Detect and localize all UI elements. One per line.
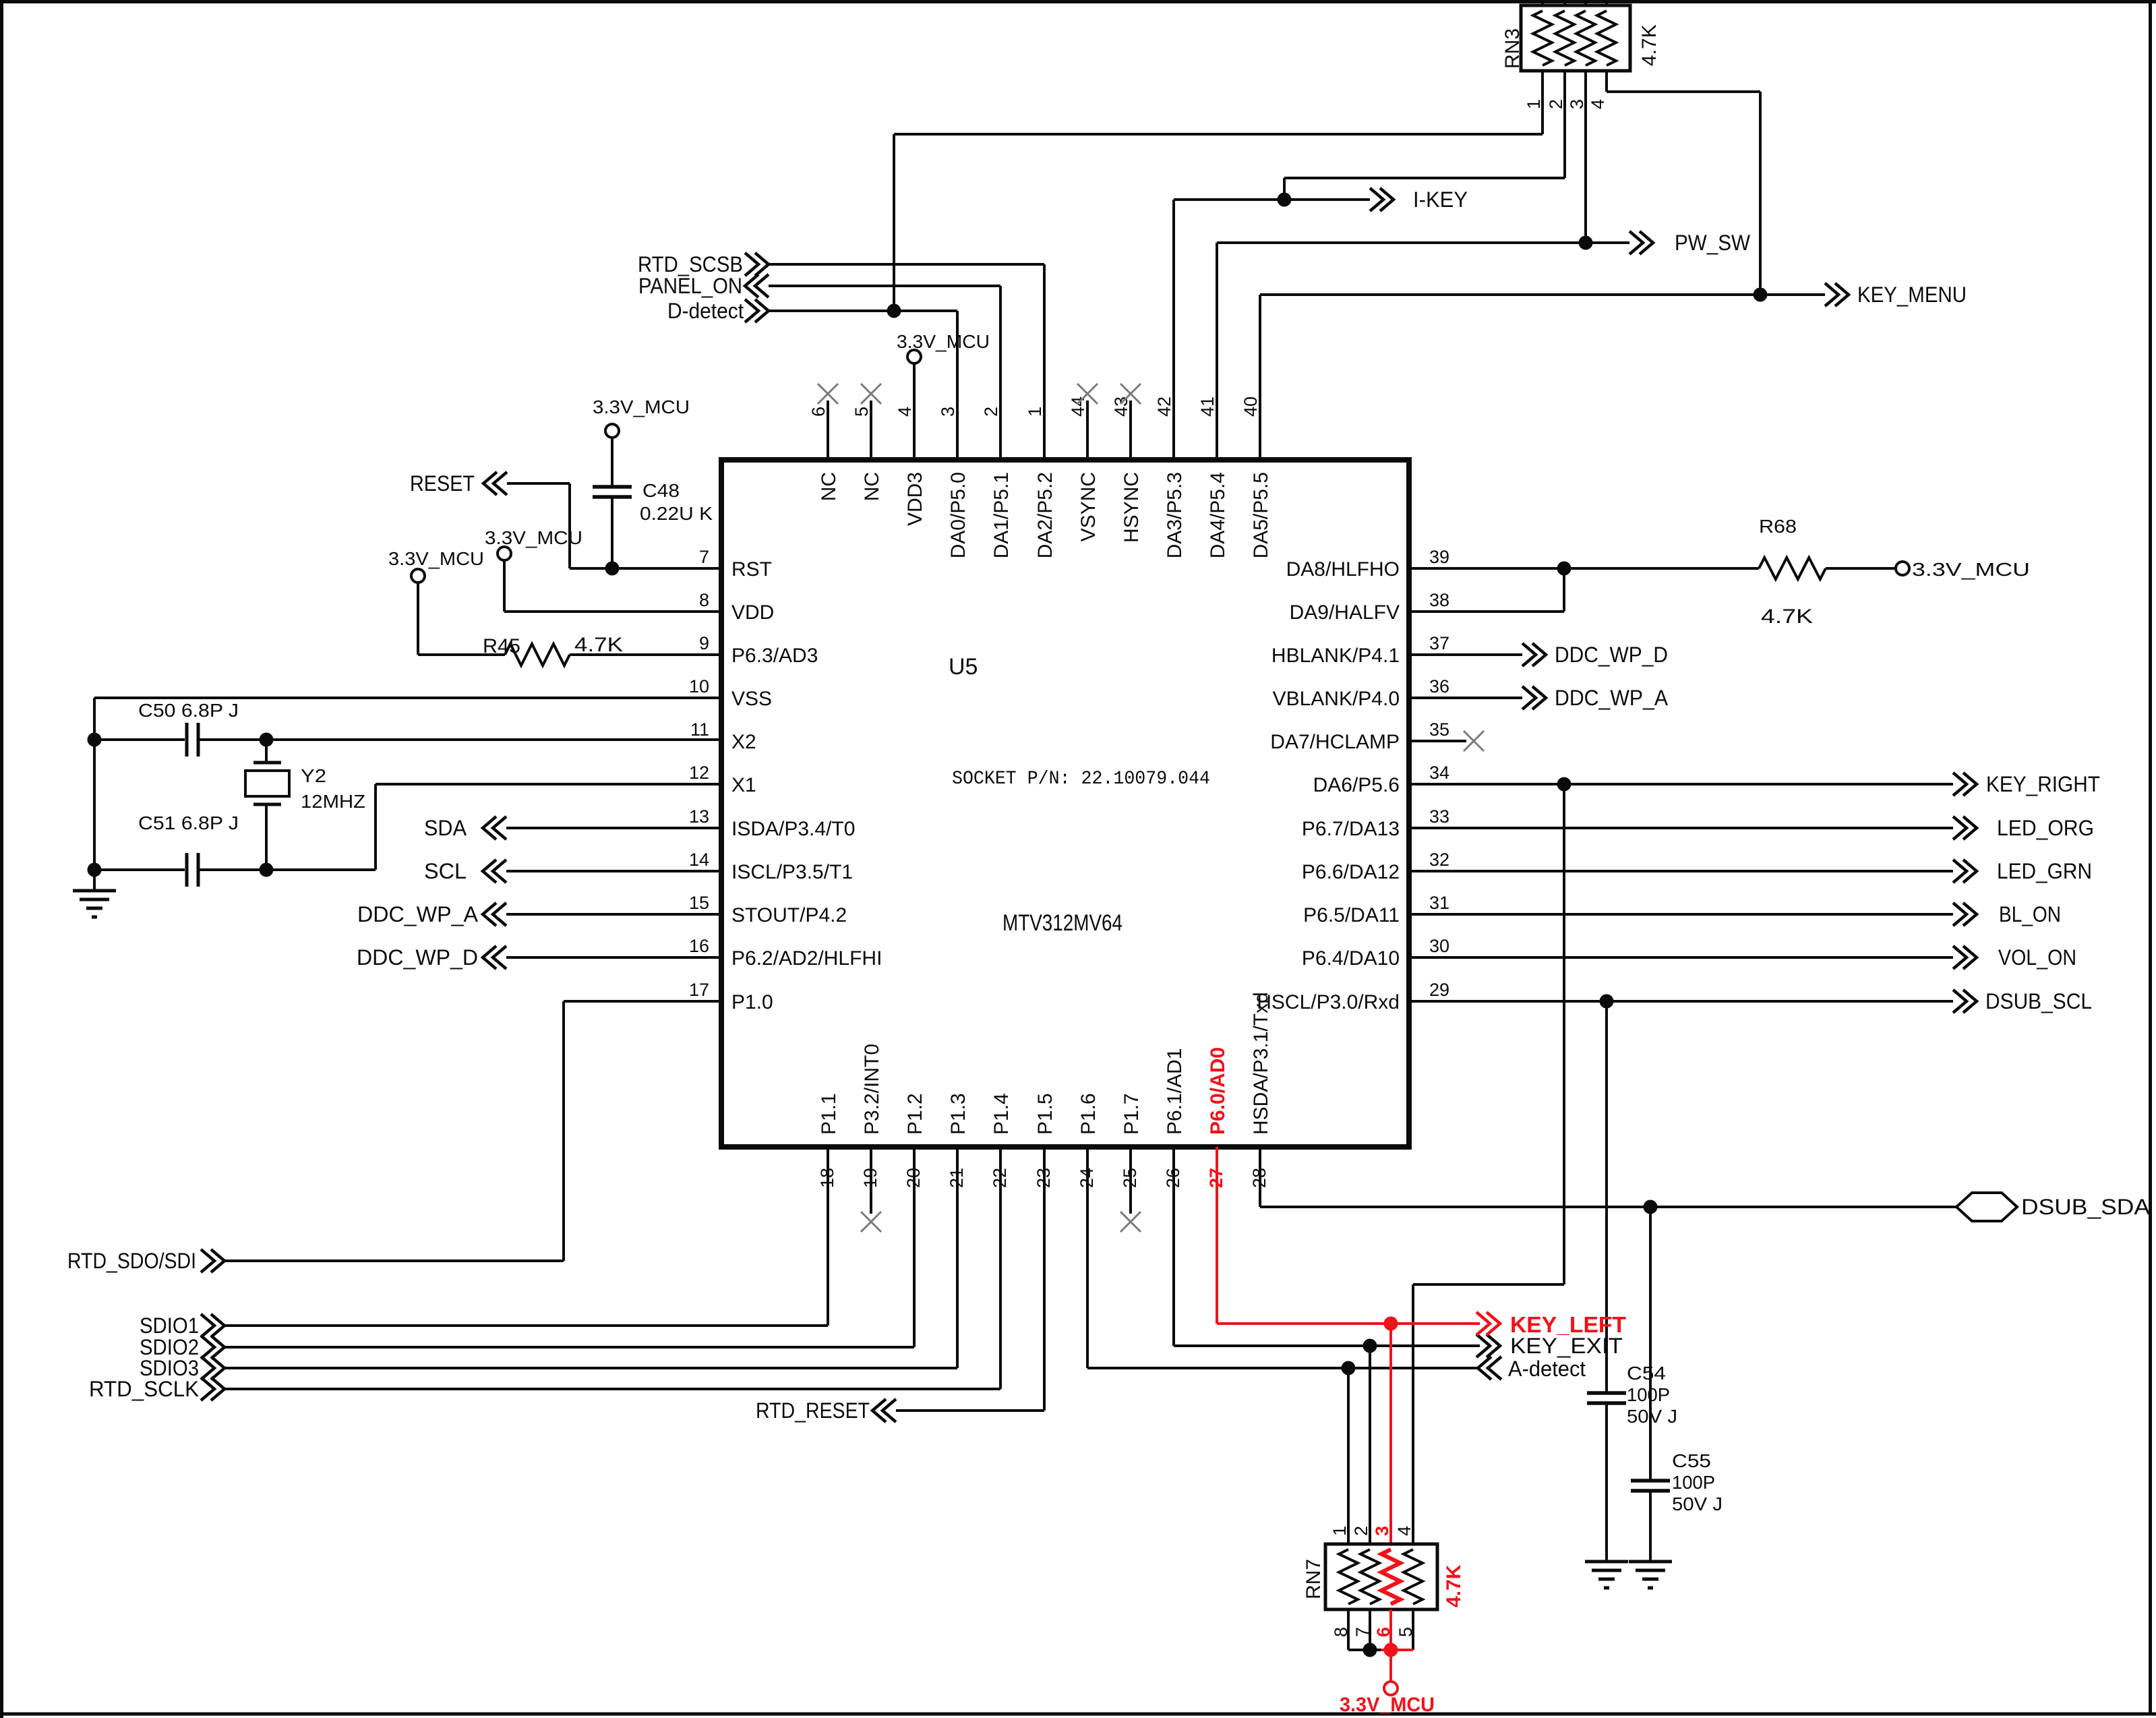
U5 pin 12 (X1) left number + name (689, 763, 756, 796)
svg-text:KEY_RIGHT: KEY_RIGHT (1986, 772, 2100, 796)
svg-text:7: 7 (699, 547, 709, 567)
R45 value label 4.7K (574, 634, 623, 656)
svg-text:HBLANK/P4.1: HBLANK/P4.1 (1271, 645, 1400, 667)
svg-text:2: 2 (1351, 1526, 1371, 1536)
RN7 pin number 2 (1351, 1526, 1371, 1536)
wire I-KEY net: pin 42 up and right to chevron (1174, 188, 1394, 460)
svg-text:RTD_SCLK: RTD_SCLK (89, 1377, 199, 1401)
svg-text:Y2: Y2 (301, 765, 326, 786)
svg-text:KEY_EXIT: KEY_EXIT (1510, 1334, 1623, 1358)
svg-text:30: 30 (1429, 936, 1449, 956)
capacitor C54 (1587, 1393, 1626, 1403)
wire C51 right up to pin 12 X1 (198, 784, 721, 870)
svg-text:43: 43 (1111, 396, 1131, 417)
junction RN7 pin 2 on KEY_EXIT line (1363, 1339, 1377, 1353)
svg-text:P1.6: P1.6 (1077, 1093, 1100, 1135)
svg-text:5: 5 (1396, 1627, 1416, 1637)
net label SCL (424, 859, 467, 883)
wire KEY_RIGHT junction down to RN7 pin 4 (1413, 784, 1564, 1544)
U5 pin 2 (DA1/P5.1) top stub + number + name (981, 286, 1013, 558)
wire RN7 bottom tie (red part) (1381, 1649, 1413, 1651)
crystal Y2 (245, 740, 289, 870)
U5 pin 23 (P1.5) bottom stub + number + name (1034, 1093, 1056, 1411)
U5 pin 24 (P1.6) bottom stub + number + name (1077, 1093, 1100, 1368)
svg-text:3: 3 (938, 407, 958, 417)
C54 value label 50V J (1627, 1406, 1677, 1427)
svg-text:P1.4: P1.4 (990, 1093, 1013, 1135)
svg-text:ISDA/P3.4/T0: ISDA/P3.4/T0 (731, 818, 855, 840)
power label 3.3V_MCU (R45) (388, 548, 484, 569)
wire KEY_LEFT net (red): pin 27 to chevron (1217, 1312, 1500, 1335)
U5 pin 1 (DA2/P5.2) top stub + number + name (1025, 264, 1056, 558)
svg-text:4.7K: 4.7K (1638, 24, 1660, 66)
svg-text:R45: R45 (483, 635, 520, 657)
svg-text:LED_ORG: LED_ORG (1997, 816, 2094, 840)
RN7 bottom stub pin 5 (1412, 1609, 1414, 1650)
power label 3.3V_MCU (C48) (593, 396, 690, 417)
svg-text:DDC_WP_D: DDC_WP_D (1555, 643, 1668, 667)
wire C51 left lead (94, 868, 185, 871)
wire KEY_MENU net: pin 40 up and right to chevron (1260, 283, 1849, 460)
svg-text:18: 18 (817, 1168, 837, 1188)
U5 pin 18 (P1.1) bottom stub + number + name (817, 1093, 840, 1326)
svg-text:SDA: SDA (424, 816, 467, 840)
capacitor C51 (187, 853, 198, 887)
wire R68 to 3.3V_MCU (1826, 567, 1896, 570)
wire RN3 pin 3 stub down (1584, 71, 1587, 243)
net label D-detect (667, 299, 744, 323)
svg-text:4: 4 (1394, 1526, 1414, 1536)
U5 pin 11 (X2) left number + name (690, 719, 756, 753)
U5 pin 28 (HSDA/P3.1/Txd) bottom stub + number + name (1249, 992, 1272, 1207)
wire VOL_ON net (pin 30) to chevron (1409, 946, 1977, 969)
svg-text:ISCL/P3.5/T1: ISCL/P3.5/T1 (731, 861, 853, 883)
svg-text:P6.3/AD3: P6.3/AD3 (731, 645, 818, 667)
svg-text:DA0/P5.0: DA0/P5.0 (947, 472, 969, 558)
svg-text:40: 40 (1240, 396, 1261, 417)
wire pin 28 to DSUB_SDA (1260, 1147, 1956, 1207)
U5 pin 21 (P1.3) bottom stub + number + name (947, 1093, 969, 1368)
svg-text:8: 8 (699, 590, 709, 610)
net label RTD_RESET (756, 1398, 870, 1423)
power label 3.3V_MCU (RN7, red) (1340, 1694, 1435, 1716)
wire C48 bottom to RST junction (611, 497, 613, 568)
U5 pin 41 (DA4/P5.4) top stub + number + name (1197, 243, 1229, 558)
RN7 element 1 zigzag (1339, 1549, 1358, 1604)
wire C54 to ground (1605, 1403, 1608, 1562)
svg-text:RN3: RN3 (1501, 28, 1524, 69)
wire RESET net: chevron to pin 7 (483, 472, 721, 568)
IC U5 part number label (1002, 910, 1122, 936)
RN7 element 4 zigzag (1404, 1549, 1423, 1604)
U5 pin 38 (DA9/HALFV) right number + name (1290, 590, 1449, 624)
svg-text:4: 4 (1588, 99, 1608, 109)
svg-text:1: 1 (1329, 1526, 1350, 1536)
svg-text:1: 1 (1524, 99, 1544, 109)
svg-text:DDC_WP_D: DDC_WP_D (357, 945, 478, 970)
svg-text:C50 6.8P J: C50 6.8P J (138, 700, 239, 721)
junction RN7 pin 3 on KEY_LEFT line (red) (1384, 1317, 1398, 1331)
wire LED_GRN net (pin 32) to chevron (1409, 860, 1977, 883)
RN3 top pin stubs to page edge (1543, 0, 1607, 5)
svg-text:P1.3: P1.3 (947, 1093, 969, 1135)
svg-text:SCL: SCL (424, 859, 467, 883)
svg-text:DA1/P5.1: DA1/P5.1 (990, 472, 1013, 558)
U5 pin 39 (DA8/HLFHO) right number + name (1286, 547, 1449, 581)
junction on KEY_RIGHT line (1557, 777, 1571, 792)
RN7 bottom stub pin 6 (red) (1389, 1609, 1392, 1650)
svg-text:14: 14 (689, 850, 709, 870)
wire RTD_SCLK net: chevron to pin 22 (201, 1378, 1000, 1400)
wire RN3 pin 4 over and down to KEY_MENU junction (1607, 71, 1760, 295)
svg-text:HSCL/P3.0/Rxd: HSCL/P3.0/Rxd (1257, 991, 1400, 1013)
RN7 pin number 1 (1329, 1526, 1350, 1536)
net label SDA (424, 816, 467, 840)
svg-text:P3.2/INT0: P3.2/INT0 (861, 1044, 883, 1135)
svg-text:4.7K: 4.7K (1761, 605, 1813, 628)
U5 pin 44 (VSYNC) top stub + number + name (1068, 396, 1100, 541)
wire red tie down to power (1389, 1650, 1392, 1682)
junction C51 left (88, 863, 102, 877)
wire RN3 pin 2 down to I-KEY junction (1284, 71, 1565, 200)
svg-text:RST: RST (731, 558, 772, 581)
RN3 element 3 zigzag (1576, 11, 1595, 65)
net label KEY_RIGHT (1986, 772, 2100, 796)
svg-text:DA4/P5.4: DA4/P5.4 (1207, 472, 1229, 558)
RN7 element 3 zigzag (red) (1381, 1549, 1400, 1604)
junction crystal bottom on C51 line (260, 863, 274, 877)
svg-text:SOCKET P/N: 22.10079.044: SOCKET P/N: 22.10079.044 (952, 769, 1210, 790)
C50 label C50 6.8P J (138, 700, 239, 721)
net label KEY_LEFT (red) (1510, 1312, 1626, 1337)
svg-text:DA5/P5.5: DA5/P5.5 (1250, 472, 1272, 558)
svg-text:LED_GRN: LED_GRN (1997, 859, 2092, 883)
wire DSUB_SCL junction down to C54 (1605, 1001, 1608, 1393)
svg-text:35: 35 (1429, 719, 1449, 740)
U5 pin 33 (P6.7/DA13) right number + name (1302, 806, 1449, 840)
net label RTD_SCLK (89, 1377, 199, 1401)
U5 pin 17 (P1.0) left number + name (689, 980, 773, 1013)
U5 pin 27 (P6.0/AD0) bottom stub + number + name (1206, 1047, 1229, 1324)
svg-text:VSYNC: VSYNC (1077, 472, 1100, 541)
svg-text:8: 8 (1331, 1627, 1351, 1637)
svg-text:VBLANK/P4.0: VBLANK/P4.0 (1273, 688, 1400, 710)
U5 pin 19 (P3.2/INT0) bottom stub + number + name (860, 1044, 883, 1214)
U5 pin 3 (DA0/P5.0) top stub + number + name (938, 311, 969, 558)
no-connect X on pin 43 (1120, 384, 1141, 404)
RN7 pin number 4 (1394, 1526, 1414, 1536)
RN7 refdes label (1302, 1559, 1325, 1599)
capacitor C50 (187, 723, 198, 757)
svg-text:4.7K: 4.7K (574, 634, 623, 656)
wire pin 38 up to pin 39 line (1409, 568, 1564, 612)
svg-text:44: 44 (1068, 396, 1088, 417)
junction RN3 pin 3 on PW_SW line (1579, 236, 1593, 250)
power symbol 3.3V_MCU at pin 8 (498, 547, 511, 560)
U5 pin 6 (NC) top stub + number + name (808, 401, 840, 501)
net label PANEL_ON (638, 274, 742, 298)
no-connect X on pin 25 (1120, 1212, 1141, 1232)
svg-text:MTV312MV64: MTV312MV64 (1002, 910, 1122, 936)
wire A-detect net: pin 24 to chevron (1087, 1357, 1501, 1380)
wire DDC_WP_A net: chevron to pin 15 (483, 903, 721, 926)
wire RTD_RESET net: chevron to pin 23 (872, 1399, 1044, 1422)
svg-text:24: 24 (1077, 1168, 1097, 1188)
svg-text:4: 4 (895, 407, 915, 417)
RN7 pin number 8 (1331, 1627, 1351, 1637)
U5 pin 32 (P6.6/DA12) right number + name (1302, 850, 1449, 883)
svg-text:19: 19 (860, 1168, 880, 1188)
junction C48 on RST line (605, 562, 620, 576)
svg-text:31: 31 (1429, 893, 1449, 913)
svg-text:RTD_SDO/SDI: RTD_SDO/SDI (67, 1249, 196, 1273)
U5 pin 15 (STOUT/P4.2) left number + name (689, 893, 847, 926)
svg-text:DA2/P5.2: DA2/P5.2 (1034, 472, 1056, 558)
U5 pin 5 (NC) top stub + number + name (851, 401, 883, 501)
U5 pin 7 (RST) left number + name (699, 547, 772, 581)
svg-text:7: 7 (1352, 1627, 1373, 1637)
svg-text:0.22U K: 0.22U K (640, 503, 713, 524)
RN3 refdes label (1501, 28, 1524, 69)
svg-text:2: 2 (981, 407, 1001, 417)
svg-text:100P: 100P (1672, 1472, 1715, 1493)
svg-text:20: 20 (903, 1168, 924, 1188)
svg-text:21: 21 (947, 1168, 967, 1188)
C51 label C51 6.8P J (138, 812, 239, 833)
svg-text:DA9/HALFV: DA9/HALFV (1290, 601, 1400, 624)
no-connect X on pin 5 (861, 384, 881, 404)
no-connect X on pin 44 (1077, 384, 1098, 404)
svg-text:33: 33 (1429, 806, 1449, 827)
svg-text:9: 9 (699, 633, 709, 653)
svg-text:P1.5: P1.5 (1034, 1093, 1056, 1135)
RN3 element 1 zigzag (1533, 11, 1552, 65)
net label BL_ON (1999, 902, 2061, 926)
U5 pin 40 (DA5/P5.5) top stub + number + name (1240, 295, 1272, 558)
wire PW_SW net: pin 41 up and right to chevron (1217, 231, 1653, 460)
svg-text:VDD: VDD (731, 601, 774, 624)
net label VOL_ON (1998, 945, 2076, 970)
svg-text:13: 13 (689, 806, 709, 827)
wire DSUB_SDA junction down to C55 (1649, 1207, 1652, 1481)
svg-text:PANEL_ON: PANEL_ON (638, 274, 742, 298)
RN3 pin number 1 (1524, 99, 1544, 109)
svg-text:NC: NC (861, 472, 883, 501)
C54 value label 100P (1627, 1384, 1670, 1405)
svg-text:A-detect: A-detect (1508, 1357, 1586, 1381)
RN7 bottom stub pin 8 (1347, 1609, 1350, 1650)
junction on I-KEY line (1278, 193, 1292, 207)
svg-text:STOUT/P4.2: STOUT/P4.2 (731, 904, 847, 926)
svg-text:3.3V_MCU: 3.3V_MCU (485, 527, 582, 548)
wire DDC_WP_D net: chevron to pin 16 (483, 946, 721, 969)
svg-text:29: 29 (1429, 980, 1449, 1000)
svg-text:I-KEY: I-KEY (1413, 187, 1468, 212)
svg-text:3.3V_MCU: 3.3V_MCU (1340, 1694, 1435, 1716)
svg-text:SDIO1: SDIO1 (140, 1313, 199, 1338)
svg-text:HSYNC: HSYNC (1120, 472, 1143, 543)
svg-text:6: 6 (1373, 1627, 1394, 1637)
svg-text:P6.4/DA10: P6.4/DA10 (1302, 947, 1400, 970)
svg-text:P1.1: P1.1 (818, 1093, 840, 1135)
junction on D-detect line (887, 304, 901, 318)
C55 value label 100P (1672, 1472, 1715, 1493)
IC U5 body MTV312MV64 (721, 460, 1409, 1147)
RN7 bottom stub pin 7 (1369, 1609, 1371, 1650)
net label RTD_SCSB (638, 252, 743, 276)
net label DDC_WP_A (right) (1555, 686, 1669, 710)
svg-text:100P: 100P (1627, 1384, 1670, 1405)
svg-text:17: 17 (689, 980, 709, 1000)
wire D-detect up to RN3 pin 1 (894, 71, 1543, 311)
junction C50 left (88, 733, 102, 747)
U5 pin 34 (DA6/P5.6) right number + name (1313, 763, 1449, 796)
no-connect X on pin 19 (861, 1212, 881, 1232)
svg-text:DA3/P5.3: DA3/P5.3 (1164, 472, 1186, 558)
RN3 pin number 4 (1588, 99, 1608, 109)
svg-text:12: 12 (689, 763, 709, 783)
wire C50 left lead (94, 738, 185, 741)
wire SDA net: chevron to pin 13 (483, 817, 721, 839)
net label DSUB_SCL (1985, 989, 2092, 1013)
RN7 element 2 zigzag (1360, 1549, 1379, 1604)
junction RN7 pin 6 tie (red) (1384, 1643, 1398, 1657)
wire power to pin 8 VDD (504, 560, 721, 612)
R45 refdes label (483, 635, 520, 657)
svg-text:1: 1 (1025, 407, 1045, 417)
net label I-KEY (1413, 187, 1468, 212)
svg-text:6: 6 (808, 407, 829, 417)
svg-text:3: 3 (1567, 99, 1587, 109)
power symbol 3.3V_MCU at C48 (605, 424, 619, 438)
capacitor C48 (593, 487, 632, 497)
wire LED_ORG net (pin 33) to chevron (1409, 817, 1977, 839)
svg-text:26: 26 (1163, 1168, 1183, 1188)
wire SCL net: chevron to pin 14 (483, 860, 721, 883)
R68 refdes label (1759, 516, 1797, 537)
U5 pin 4 (VDD3) top stub + number + name (895, 363, 926, 526)
net label DDC_WP_D (left) (357, 945, 478, 970)
svg-text:C54: C54 (1627, 1363, 1666, 1384)
net label LED_ORG (1997, 816, 2094, 840)
svg-text:27: 27 (1206, 1168, 1226, 1188)
svg-text:DDC_WP_A: DDC_WP_A (1555, 686, 1669, 710)
svg-text:38: 38 (1429, 590, 1449, 610)
U5 pin 13 (ISDA/P3.4/T0) left number + name (689, 806, 855, 840)
svg-text:RTD_SCSB: RTD_SCSB (638, 252, 743, 276)
net label LED_GRN (1997, 859, 2092, 883)
svg-text:VSS: VSS (731, 688, 772, 710)
svg-text:U5: U5 (949, 654, 978, 680)
net label RTD_SDO/SDI (67, 1249, 196, 1273)
Y2 value label 12MHZ (301, 791, 365, 812)
junction pin38/39 tie (1557, 562, 1571, 576)
svg-text:C48: C48 (642, 480, 680, 501)
wire SDIO1 net: chevron to pin 18 (201, 1314, 828, 1337)
resistor network RN7 body (1325, 1544, 1437, 1609)
RN7 pin number 6 (red) (1373, 1627, 1394, 1637)
RN3 pin number 3 (1567, 99, 1587, 109)
U5 pin 26 (P6.1/AD1) bottom stub + number + name (1163, 1048, 1186, 1346)
svg-text:15: 15 (689, 893, 709, 913)
no-connect X on pin 6 (818, 384, 838, 404)
U5 pin 42 (DA3/P5.3) top stub + number + name (1154, 200, 1186, 558)
wire RN7 pin 1 stub down (1347, 1368, 1350, 1544)
svg-text:3.3V_MCU: 3.3V_MCU (1912, 559, 2030, 580)
U5 pin 20 (P1.2) bottom stub + number + name (903, 1093, 926, 1347)
wire DSUB_SCL net (pin 29) to chevron (1409, 990, 1977, 1013)
resistor R45 zigzag (505, 644, 570, 665)
U5 pin 35 (DA7/HCLAMP) right number + name (1270, 719, 1449, 753)
net label A-detect (1508, 1357, 1586, 1381)
U5 pin 25 (P1.7) bottom stub + number + name (1120, 1093, 1143, 1214)
U5 pin 9 (P6.3/AD3) left number + name (699, 633, 818, 667)
net label SDIO3 (140, 1356, 199, 1380)
net label DSUB_SDA (2021, 1195, 2151, 1219)
C48 value label 0.22U K (640, 503, 713, 524)
junction on DSUB_SDA line (1644, 1200, 1658, 1214)
RN7 pin number 7 (1352, 1627, 1373, 1637)
wire RN7 pin 2 stub down (1369, 1346, 1371, 1544)
RN3 element 2 zigzag (1555, 11, 1574, 65)
resistor network RN3 body (1521, 5, 1630, 71)
pin 35 no-connect stub (1409, 740, 1466, 742)
ground symbol below C54 (1585, 1562, 1628, 1588)
junction RN7 pin 7 tie (1363, 1643, 1377, 1657)
junction RN7 pin 1 on A-detect line (1342, 1361, 1356, 1375)
wire D-detect net: chevron to pin 3 (745, 299, 957, 460)
U5 pin 10 (VSS) left number + name (689, 676, 772, 710)
wire C50 right to pin 11 X2 (198, 738, 721, 741)
svg-text:P6.6/DA12: P6.6/DA12 (1302, 861, 1400, 883)
junction on KEY_MENU line (1754, 288, 1768, 302)
RN7 pin number 3 (red) (1372, 1526, 1392, 1536)
svg-text:25: 25 (1120, 1168, 1140, 1188)
net label KEY_MENU (1857, 283, 1967, 307)
svg-text:2: 2 (1546, 99, 1566, 109)
svg-text:D-detect: D-detect (667, 299, 744, 323)
U5 pin 8 (VDD) left number + name (699, 590, 774, 624)
wire pin 17 to RTD_SDO/SDI chevron (201, 1001, 721, 1272)
U5 pin 22 (P1.4) bottom stub + number + name (990, 1093, 1013, 1389)
wire SDIO2 net: chevron to pin 20 (201, 1336, 914, 1359)
wire power to C48 top (611, 438, 613, 487)
U5 pin 30 (P6.4/DA10) right number + name (1302, 936, 1449, 970)
svg-text:DSUB_SCL: DSUB_SCL (1985, 989, 2092, 1013)
resistor R68 zigzag (1759, 558, 1826, 579)
svg-text:23: 23 (1034, 1168, 1054, 1188)
svg-text:5: 5 (851, 407, 872, 417)
svg-text:R68: R68 (1759, 516, 1797, 537)
IC U5 refdes label (949, 654, 978, 680)
svg-text:P6.7/DA13: P6.7/DA13 (1302, 818, 1400, 840)
svg-text:22: 22 (990, 1168, 1010, 1188)
wire BL_ON net (pin 31) to chevron (1409, 903, 1977, 926)
svg-text:3.3V_MCU: 3.3V_MCU (897, 331, 990, 352)
svg-text:C51 6.8P J: C51 6.8P J (138, 812, 239, 833)
wire DDC_WP_A net (pin 36) to chevron (1409, 686, 1546, 709)
ground symbol below C55 (1629, 1562, 1672, 1588)
svg-text:P1.0: P1.0 (731, 991, 773, 1013)
wire KEY_EXIT net: pin 26 to chevron (1174, 1334, 1500, 1357)
wire pin 10 VSS to ground rail (94, 698, 721, 891)
svg-text:P6.1/AD1: P6.1/AD1 (1164, 1048, 1186, 1135)
wire DDC_WP_D net (pin 37) to chevron (1409, 643, 1546, 666)
net label DDC_WP_D (right) (1555, 643, 1668, 667)
wire RN7 pin 3 stub down (red) (1389, 1324, 1392, 1544)
DSUB_SDA hexagon port symbol (1956, 1193, 2017, 1221)
wire C55 to ground (1649, 1491, 1652, 1562)
